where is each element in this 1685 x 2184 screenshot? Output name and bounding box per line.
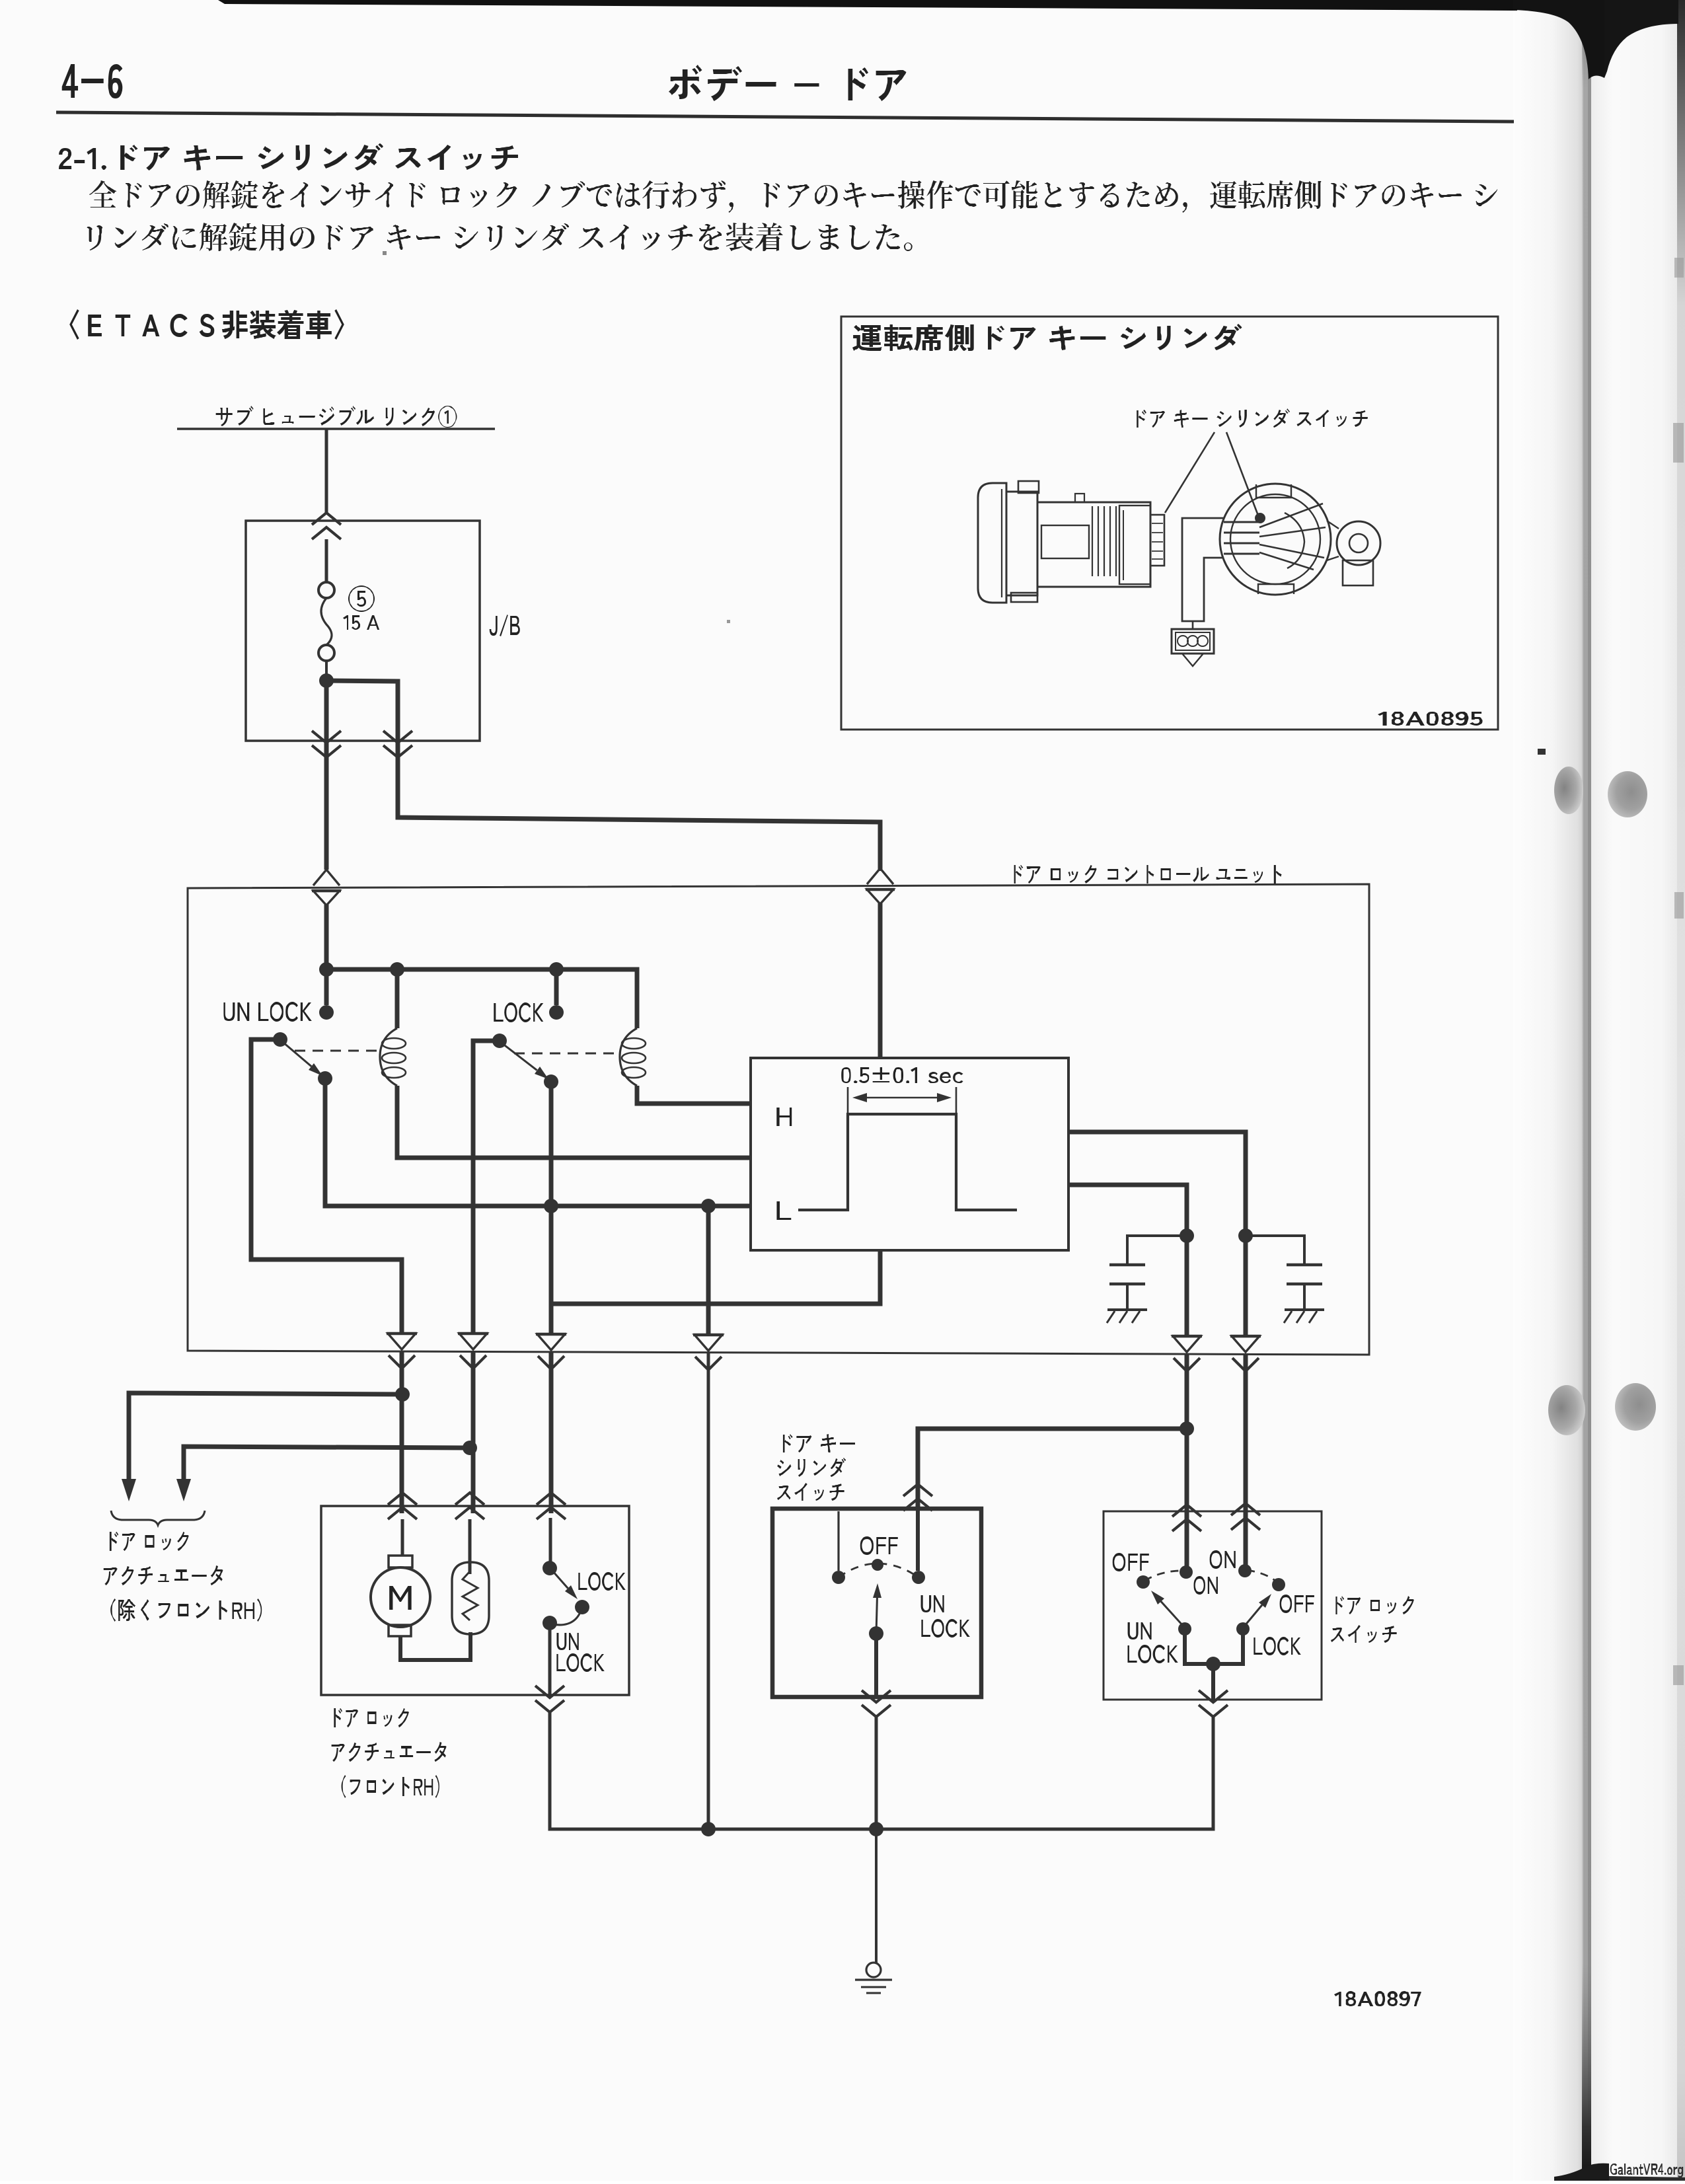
door key cylinder switch box (772, 1509, 981, 1697)
pulse waveform (798, 1114, 1017, 1210)
arrow head 2 (176, 1479, 191, 1501)
key cyl right contact dot (UN LOCK) (912, 1571, 925, 1584)
actuator entry connectors (388, 1493, 566, 1519)
pulse box right stub lower (1068, 1185, 1187, 1335)
output connector 2 (458, 1334, 488, 1369)
LOCK upper contact dot (549, 1005, 564, 1020)
key cyl exit connectors (862, 1690, 891, 1717)
label サブ ヒュージブル リンク① (216, 406, 457, 428)
label LOCK (494, 1002, 543, 1022)
junction block J/B box (246, 521, 480, 741)
branch wire to actuator arrow 1 (129, 1393, 402, 1480)
wire switch down through box (548, 1623, 552, 1696)
key cyl wire to right contact (916, 1509, 920, 1571)
dls exit connectors (1199, 1690, 1228, 1717)
control unit entry connector feed (866, 868, 895, 904)
junction dot L line x836 (544, 1199, 558, 1213)
wire W1 inside control unit (324, 905, 329, 969)
junction dot output1 branch (395, 1387, 410, 1402)
key cyl wire down (874, 1634, 878, 1697)
header rule (56, 112, 1514, 122)
motor M (371, 1556, 430, 1636)
wire output4 down to ground line (707, 1353, 710, 1829)
label ドア キー シリンダ スイッチ (switch) (777, 1434, 855, 1501)
subsection label ETACS (69, 309, 344, 340)
wire output2 down with branch (471, 1352, 476, 1513)
connectors at J/B bottom (312, 731, 412, 757)
label H (776, 1108, 792, 1126)
label M (389, 1586, 411, 1610)
wire to relay1 coil (395, 969, 400, 1028)
junction dot ground line x1326 (869, 1822, 883, 1836)
label OFF key cyl (860, 1536, 898, 1555)
junction dot A (319, 962, 334, 977)
label J/B (490, 615, 520, 636)
wire relay2 branch to pulse box bottom (551, 1250, 880, 1304)
label UN LOCK (223, 1002, 311, 1022)
actuator switch UN LOCK dot (543, 1616, 557, 1630)
wire output3 down (549, 1352, 554, 1513)
junction dot output2 branch (463, 1441, 477, 1455)
junction dot cap1 (1179, 1228, 1194, 1243)
label 15 A (343, 615, 379, 630)
coil2 wire to pulse box (637, 1086, 751, 1104)
dls U junction dot (1206, 1657, 1220, 1671)
actuator switch arm (552, 1571, 578, 1599)
key cyl left contact stub (837, 1511, 839, 1571)
dls wire down (1211, 1664, 1215, 1700)
door lock actuator box (front RH) (321, 1506, 629, 1695)
key cyl middle contact dot (872, 1559, 883, 1571)
wire left branch down (324, 681, 329, 741)
wire W1 down to control unit (324, 741, 329, 870)
label ドア ロック アクチュエータ フロントRH (332, 1708, 447, 1798)
dls dashed arc right (1247, 1570, 1278, 1583)
dimension ticks and arrows (848, 1087, 956, 1113)
ground stem (875, 1829, 878, 1963)
junction dot L line x1073 (701, 1199, 716, 1213)
output connector 3 (536, 1334, 566, 1369)
sub fusible link bus line (177, 428, 495, 430)
body text line2 (87, 223, 913, 251)
relay2 pivot wire to output 2 (473, 1041, 500, 1335)
ground symbol (855, 1963, 892, 1993)
wire from fusible link to J/B (325, 429, 328, 513)
wire W2 to control unit feed (398, 741, 880, 871)
illustration title (852, 324, 1242, 351)
key cyl wire to ground junction (875, 1717, 878, 1829)
branch wire to actuator arrow 2 (184, 1447, 470, 1480)
wire actuator to ground line (550, 1712, 708, 1829)
page title ボデー－ドア (669, 65, 907, 101)
figure number 18A0895 (1378, 712, 1483, 726)
arrow head 1 (122, 1479, 136, 1501)
label L (776, 1201, 791, 1220)
wire into fuse (325, 539, 328, 582)
ground line left segment (708, 1828, 876, 1831)
actuator switch curve (552, 1607, 582, 1625)
label ドア ロック アクチュエータ 除くフロントRH (104, 1532, 262, 1622)
key cyl arm junction dot (869, 1626, 883, 1641)
relay1 coil (380, 1028, 406, 1086)
thick branch wire right (326, 681, 398, 741)
wire fuse to junction (325, 661, 328, 681)
pulse box right stub upper (1068, 1132, 1246, 1335)
dls UN LOCK contact dot (1178, 1622, 1191, 1636)
relay supply line (326, 969, 637, 1028)
key cylinder body (978, 481, 1164, 603)
output connector 5 (1172, 1336, 1202, 1371)
label 0.5±0.1 sec (841, 1067, 963, 1083)
UN LOCK upper contact dot (319, 1005, 334, 1020)
labels door lock switch (1113, 1553, 1149, 1571)
coil1 wire to pulse box (397, 1086, 751, 1158)
label ドア ロック スイッチ (1331, 1596, 1414, 1643)
key cylinder entry connectors (903, 1484, 932, 1511)
relay2 pivot dot (492, 1034, 507, 1048)
key cylinder switch face (1220, 484, 1380, 595)
figure number 18A0897 (1334, 1991, 1421, 2006)
label UN LOCK key cyl (921, 1595, 970, 1638)
brace under arrows (111, 1511, 205, 1525)
junction dot C (549, 962, 564, 977)
actuator switch upper dot (543, 1561, 557, 1575)
relay1 pivot dot (273, 1032, 287, 1047)
capacitor 1 (1107, 1236, 1187, 1323)
wire L junction to output 4 (706, 1206, 711, 1335)
relay1 dashed link (295, 1050, 379, 1052)
relay1 arm (283, 1042, 322, 1076)
junction dot x1796 (1179, 1421, 1194, 1436)
dls dashed arc left (1144, 1571, 1184, 1581)
control unit label (1014, 865, 1282, 884)
label circled 5 (348, 585, 375, 612)
relay2 coil (620, 1028, 646, 1086)
dls ON dot left (1179, 1565, 1193, 1579)
dls OFF dot left (1137, 1575, 1150, 1589)
relay2 lower contact dot (544, 1074, 558, 1089)
dls U wire (1185, 1629, 1243, 1664)
control unit entry connector left (312, 870, 341, 905)
key cyl dashed arc (839, 1563, 918, 1577)
motor resistor bottom wire (400, 1632, 470, 1660)
resistor capsule (452, 1562, 489, 1634)
key cyl movable arm arrow (873, 1583, 881, 1634)
wire to UN LOCK contact (324, 969, 329, 1005)
connector at J/B top (312, 513, 341, 539)
key cyl left contact dot (832, 1571, 845, 1584)
dls wire to ground line (876, 1717, 1213, 1829)
page number 4-6 (62, 64, 123, 98)
junction dot in J/B (319, 673, 334, 688)
actuator switch LOCK dot (575, 1600, 589, 1614)
actuator switch feed wire (549, 1518, 552, 1568)
relay2 contact wire down (549, 1082, 554, 1335)
wire output5 down to door lock switch (1185, 1354, 1189, 1572)
timer pulse box (751, 1058, 1068, 1250)
door lock switch box (1104, 1511, 1322, 1700)
dls LOCK contact dot (1236, 1622, 1250, 1636)
wire output5 branch to key cylinder switch (918, 1429, 1187, 1509)
output connector 4 (693, 1335, 724, 1370)
relay2 arm (502, 1043, 548, 1079)
actuator exit connectors (535, 1686, 564, 1712)
section heading 2-1 (59, 143, 518, 170)
output connector 1 (387, 1334, 417, 1369)
label UN LOCK actuator (556, 1633, 604, 1672)
wire output6 down to door lock switch (1244, 1354, 1248, 1571)
illustration label ドア キー シリンダ スイッチ (1137, 408, 1368, 428)
leader lines (1165, 432, 1265, 523)
dls arm left arrow (1151, 1591, 1183, 1626)
resistor feed wire (468, 1519, 472, 1574)
label LOCK actuator (578, 1572, 625, 1591)
capacitor 2 (1246, 1236, 1324, 1323)
output connector 6 (1230, 1336, 1261, 1371)
motor feed wire (401, 1519, 404, 1556)
relay1 lower contact dot (318, 1071, 332, 1086)
feed wire to pulse box (878, 903, 883, 1058)
dls ON dot right (1238, 1564, 1252, 1577)
body text line1 (89, 180, 1497, 213)
dls OFF dot right (1272, 1578, 1285, 1591)
illustration box 運転席側ドア キー シリンダ (841, 317, 1498, 730)
relay1 contact wire and L line (325, 1078, 751, 1206)
relay2 dashed link (514, 1053, 619, 1055)
wire output1 down with branch (400, 1352, 404, 1513)
wire to LOCK contact (554, 969, 559, 1005)
junction dot ground line x1071 (701, 1822, 716, 1836)
fuse 5 15A (318, 582, 334, 661)
relay1 pivot wire to output 1 (251, 1039, 402, 1335)
junction dot B (390, 962, 404, 977)
switch harness and connector (1172, 518, 1224, 666)
door lock control unit box (188, 884, 1369, 1355)
junction dot cap2 (1238, 1228, 1253, 1243)
dls arm right arrow (1244, 1594, 1271, 1626)
door lock switch entry connectors (1172, 1503, 1260, 1531)
